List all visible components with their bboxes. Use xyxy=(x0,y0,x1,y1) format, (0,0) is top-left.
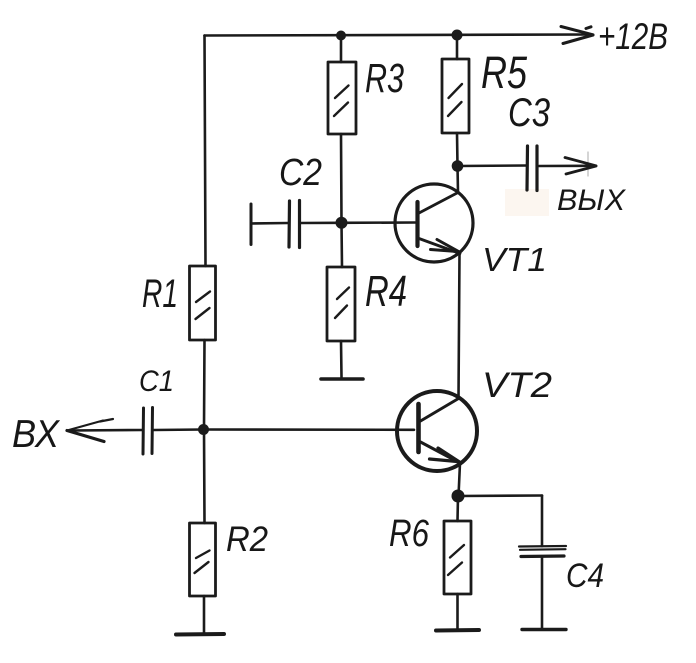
wire R3 bottom to base node xyxy=(340,134,343,223)
svg-text:VT2: VT2 xyxy=(482,366,552,405)
svg-text:R4: R4 xyxy=(365,267,407,316)
wire R4 bottom to ground xyxy=(340,341,343,377)
node input junction xyxy=(198,424,209,435)
node top rail to R3 xyxy=(336,31,346,41)
svg-text:ВЫХ: ВЫХ xyxy=(557,184,626,217)
wire base node to VT1 base xyxy=(342,221,416,224)
wire VT1 collector up to output node xyxy=(456,166,459,193)
resistor R5 xyxy=(442,59,469,133)
transistor VT1 xyxy=(395,184,473,262)
svg-text:С1: С1 xyxy=(139,365,174,398)
wire output node to C3 xyxy=(458,164,527,167)
capacitor C4 xyxy=(519,496,566,629)
svg-text:С3: С3 xyxy=(508,91,550,135)
input arrow BX xyxy=(67,419,142,442)
wire rail to R5 xyxy=(456,35,459,59)
capacitor C3 xyxy=(527,146,590,191)
+12V supply arrow xyxy=(561,27,593,177)
wire base node down to R4 xyxy=(340,223,343,267)
svg-text:VT1: VT1 xyxy=(482,241,547,278)
wire emitter node down to R6 xyxy=(456,496,459,521)
svg-text:ВХ: ВХ xyxy=(12,413,61,456)
ground below C4 xyxy=(522,628,566,631)
resistor R1 xyxy=(190,266,216,340)
svg-text:С4: С4 xyxy=(566,557,604,595)
wire R5 bottom to output node xyxy=(456,133,459,166)
wire VT1 emitter down to VT2 collector xyxy=(459,254,460,399)
wire R2 bottom to ground xyxy=(203,596,206,633)
resistor R2 xyxy=(190,523,216,596)
wire left rail down from corner xyxy=(205,36,206,267)
resistor R4 xyxy=(327,267,355,341)
wire emitter node to C4 xyxy=(458,494,542,497)
paper blemish near output label xyxy=(505,189,549,216)
output arrow xyxy=(565,158,596,175)
node emitter junction xyxy=(452,490,465,503)
wire top supply rail xyxy=(205,35,593,36)
wire VT2 emitter down to emitter node xyxy=(459,463,461,496)
svg-text:R6: R6 xyxy=(389,513,430,555)
node top rail to R5 xyxy=(452,30,463,41)
wire R6 bottom to ground xyxy=(456,594,459,629)
ground below R4 xyxy=(321,377,363,381)
svg-text:С2: С2 xyxy=(279,152,322,194)
capacitor C1 xyxy=(143,408,203,455)
node VT1 base junction xyxy=(336,217,348,229)
svg-text:R2: R2 xyxy=(226,520,268,559)
ground below R2 xyxy=(176,632,224,637)
svg-text:R3: R3 xyxy=(365,55,404,101)
node output junction xyxy=(452,160,464,172)
capacitor C2 xyxy=(251,201,341,248)
wire input node down to R2 xyxy=(203,430,206,524)
wire rail to R3 xyxy=(340,36,343,63)
resistor R6 xyxy=(444,521,471,594)
wire input node to VT2 base xyxy=(204,428,414,431)
transistor VT2 xyxy=(397,391,477,471)
wire R1 bottom to input node xyxy=(203,340,206,429)
svg-text:+12В: +12В xyxy=(598,16,668,57)
resistor R3 xyxy=(328,62,356,134)
ground below R6 xyxy=(436,628,479,633)
svg-text:R1: R1 xyxy=(142,272,178,316)
